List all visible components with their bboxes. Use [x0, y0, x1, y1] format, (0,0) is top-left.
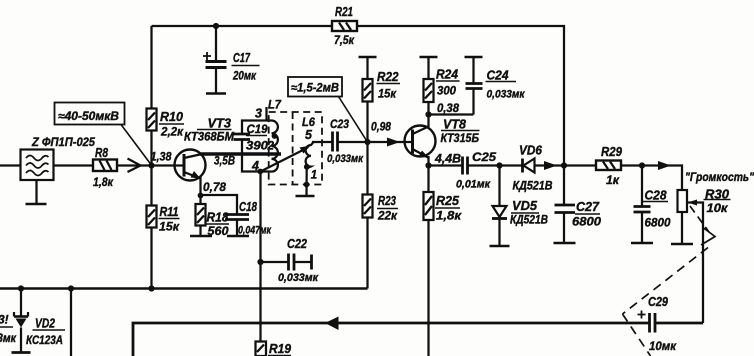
svg-text:1,8к: 1,8к: [93, 175, 114, 189]
wire VT8 collector up: [427, 115, 429, 128]
inductor L7: [268, 98, 282, 172]
pin 1: [304, 164, 310, 170]
svg-text:6800: 6800: [645, 216, 671, 230]
svg-text:R11: R11: [160, 205, 179, 219]
svg-text:C18: C18: [239, 200, 257, 214]
node 0,38: [425, 111, 431, 117]
svg-text:0,033мк: 0,033мк: [327, 153, 364, 165]
resistor R24: [420, 57, 460, 115]
svg-text:22к: 22к: [377, 209, 398, 223]
capacitor C25: [429, 150, 500, 191]
svg-text:КТ368БМ: КТ368БМ: [184, 132, 234, 144]
svg-text:2,2к: 2,2к: [160, 125, 184, 139]
svg-text:R18: R18: [207, 211, 229, 225]
potentiometer R30: [678, 188, 731, 245]
pin 2 node: [272, 133, 278, 139]
svg-text:C24: C24: [487, 69, 509, 83]
wiper R30: [688, 200, 704, 324]
svg-text:Z ФП1П-025: Z ФП1П-025: [31, 135, 95, 149]
resistor R10: [147, 109, 185, 139]
svg-text:2: 2: [267, 141, 275, 153]
wire input left: [0, 164, 21, 166]
svg-text:4,4В: 4,4В: [434, 152, 461, 166]
svg-text:VD5: VD5: [512, 199, 538, 213]
ground R30: [671, 243, 693, 246]
node rail x21: [18, 285, 24, 291]
pin 4 node: [257, 169, 263, 175]
svg-text:L6: L6: [302, 115, 315, 129]
transistor VT8: [405, 118, 480, 158]
svg-text:R21: R21: [335, 5, 353, 19]
label cut 31: [0, 313, 17, 346]
wire C23 to node 0,98: [338, 141, 368, 143]
capacitor C28: [634, 166, 671, 244]
wire vertical left branch x=151.5: [150, 26, 152, 289]
capacitor C27: [555, 166, 602, 244]
svg-text:VT3: VT3: [208, 117, 232, 131]
resistor R22: [359, 57, 401, 142]
svg-text:390: 390: [246, 141, 269, 153]
wire VT3 collector (bold): [200, 152, 281, 155]
svg-text:0,033мк: 0,033мк: [487, 89, 526, 101]
wire pin4 down: [259, 172, 261, 342]
node rail x71: [68, 285, 74, 291]
ground VD5: [490, 245, 510, 248]
node after C25: [496, 162, 502, 168]
svg-text:≈40-50мкВ: ≈40-50мкВ: [58, 111, 119, 123]
resistor R19: [256, 342, 292, 356]
capacitor C19 in tank box: [234, 121, 272, 172]
svg-text:КД521В: КД521В: [513, 181, 553, 193]
svg-text:0,78: 0,78: [203, 180, 226, 194]
capacitor C22: [261, 237, 320, 284]
shield dashed box L7/L6: [269, 112, 322, 185]
svg-text:0,98: 0,98: [371, 120, 391, 134]
wire ground rail y288: [0, 287, 368, 290]
svg-text:C25: C25: [472, 150, 496, 164]
ground of filter: [26, 180, 47, 204]
svg-text:КД521В: КД521В: [510, 215, 548, 227]
wire to VT8 base with arrow: [368, 138, 413, 147]
svg-text:3: 3: [255, 107, 262, 121]
svg-text:3мк: 3мк: [0, 333, 17, 345]
wire L6 pin5 to C23: [312, 141, 332, 143]
svg-text:R29: R29: [601, 145, 622, 159]
node emitter: [198, 193, 204, 199]
capacitor C23: [327, 117, 364, 165]
wire branch x71: [70, 289, 72, 356]
transistor VT3: [175, 117, 235, 181]
node C17 top: [213, 23, 219, 29]
resistor R25: [424, 166, 463, 356]
svg-text:R8: R8: [95, 146, 108, 160]
svg-text:3,5В: 3,5В: [214, 154, 235, 168]
ground VD2: [12, 351, 31, 354]
ground C28: [631, 242, 653, 245]
svg-text:7,5к: 7,5к: [334, 33, 355, 47]
svg-text:6800: 6800: [572, 215, 601, 229]
svg-text:10мк: 10мк: [649, 339, 677, 353]
svg-text:VD2: VD2: [35, 317, 55, 331]
svg-text:КТ315Б: КТ315Б: [441, 133, 480, 145]
wire filter to R8: [54, 164, 93, 166]
svg-text:VT8: VT8: [443, 118, 466, 132]
zener VD2: [14, 289, 65, 353]
resistor R18: [196, 204, 230, 238]
svg-text:0,01мк: 0,01мк: [456, 179, 491, 191]
wire L6 bottom to ground: [305, 167, 307, 196]
node C28: [639, 162, 645, 168]
svg-text:C23: C23: [330, 117, 349, 131]
node rail x151: [148, 285, 154, 291]
wire bottom output: [133, 317, 703, 356]
svg-text:КС123А: КС123А: [26, 335, 63, 347]
node 1,38: [148, 162, 154, 168]
svg-text:R22: R22: [377, 70, 399, 84]
wire VT3 emitter: [199, 177, 201, 204]
svg-text:0,38: 0,38: [437, 101, 459, 115]
resistor R21: [332, 5, 357, 47]
svg-text:R19: R19: [269, 342, 291, 356]
svg-text:1,8к: 1,8к: [436, 209, 462, 223]
wire to R30 with arrow: [642, 161, 682, 190]
svg-text:0,033мк: 0,033мк: [278, 272, 319, 284]
resistor R23: [363, 142, 399, 289]
inductor L6: [302, 115, 315, 168]
svg-text:20мк: 20мк: [232, 69, 257, 83]
tuning arrow core: [261, 146, 311, 172]
ground L6: [296, 195, 315, 198]
capacitor C17: [203, 26, 260, 94]
resistor R29: [564, 145, 642, 187]
ground C18: [227, 235, 249, 238]
callout ≈40-50мкВ: [55, 103, 152, 165]
capacitor C24: [465, 57, 526, 115]
wire VT8 emitter down: [427, 156, 429, 166]
node emitter VT8: [425, 162, 431, 168]
resistor R8: [93, 146, 117, 189]
diode VD6: [500, 144, 565, 193]
mech link dashed arrow: [623, 206, 716, 356]
diode VD5: [492, 166, 548, 247]
filter Z ФП1П-025: [21, 135, 96, 180]
pin 3: [265, 107, 267, 121]
ground C27: [554, 242, 576, 245]
svg-text:R24: R24: [436, 68, 458, 82]
callout ≈1,5-2мВ: [288, 77, 367, 141]
svg-text:"Громкость": "Громкость": [685, 172, 754, 184]
svg-text:1к: 1к: [606, 173, 620, 187]
wire top rail: [152, 26, 565, 166]
svg-text:C22: C22: [287, 237, 307, 251]
node x564: [561, 162, 567, 168]
svg-text:C29: C29: [648, 295, 668, 309]
ground R18: [190, 235, 212, 238]
svg-text:R23: R23: [378, 194, 396, 208]
svg-text:3!: 3!: [0, 313, 9, 327]
svg-text:R25: R25: [436, 194, 460, 208]
capacitor C18: [225, 200, 272, 237]
wire emitter to C18: [201, 195, 238, 214]
wire node to VT3 base: [152, 164, 185, 166]
svg-text:L7: L7: [268, 98, 282, 112]
svg-text:C28: C28: [645, 189, 667, 203]
svg-text:R10: R10: [160, 110, 183, 124]
svg-text:300: 300: [437, 84, 456, 98]
svg-text:1: 1: [311, 170, 317, 182]
capacitor C29: [638, 295, 677, 353]
wire R8 to node, with arrow: [117, 159, 152, 173]
node 0,98: [364, 139, 370, 145]
resistor R11: [147, 205, 180, 234]
svg-text:10к: 10к: [707, 201, 729, 215]
svg-text:5: 5: [305, 128, 313, 142]
svg-text:≈1,5-2мВ: ≈1,5-2мВ: [291, 83, 339, 95]
svg-text:C17: C17: [233, 51, 251, 65]
svg-text:VD6: VD6: [519, 144, 543, 158]
node C22: [257, 259, 263, 265]
svg-text:1,38: 1,38: [151, 150, 172, 164]
wire R24 node to C24: [429, 113, 474, 115]
svg-text:15к: 15к: [159, 220, 180, 234]
svg-text:4: 4: [251, 159, 259, 173]
svg-text:C27: C27: [576, 200, 600, 214]
svg-text:C19: C19: [247, 124, 269, 136]
svg-text:15к: 15к: [378, 87, 397, 101]
